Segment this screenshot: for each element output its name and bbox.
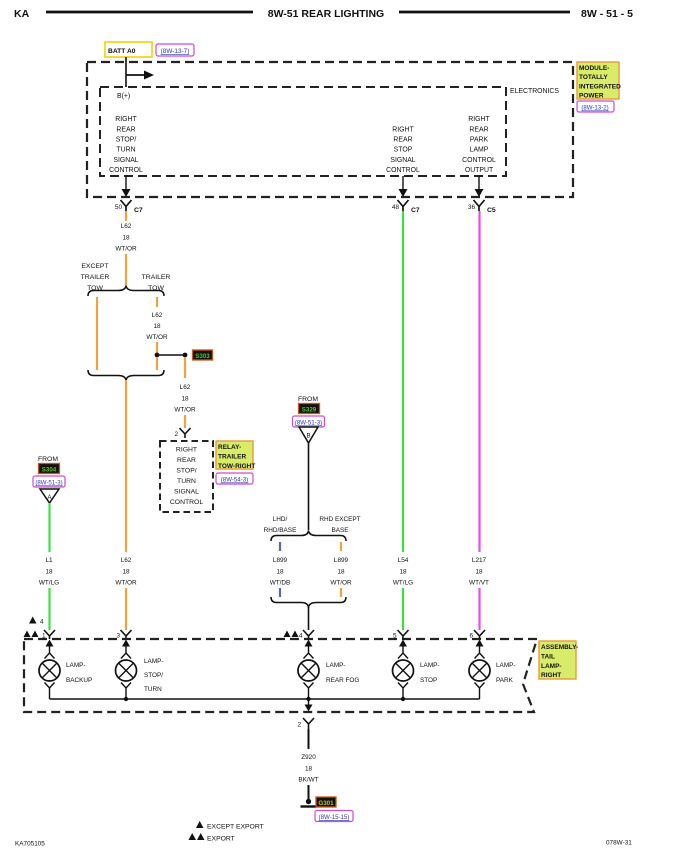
svg-text:BATT A0: BATT A0 [108,48,136,55]
ground bus wire [50,698,480,700]
svg-text:WT/OR: WT/OR [115,246,137,253]
svg-text:L54: L54 [398,557,409,564]
label LAMP-PARK [496,662,516,684]
svg-text:REAR FOG: REAR FOG [326,677,359,684]
svg-text:L1: L1 [45,557,53,564]
svg-text:8W-51 REAR LIGHTING: 8W-51 REAR LIGHTING [268,8,384,20]
junction node [401,697,405,701]
svg-text:INTEGRATED: INTEGRATED [579,83,621,90]
junction node [124,697,128,701]
svg-text:REAR: REAR [393,137,412,144]
svg-text:EXPORT: EXPORT [207,836,235,843]
svg-text:LAMP-: LAMP- [541,663,562,670]
connector C7 pin 50 [115,200,143,214]
wire L899 WT/DB branch [279,542,281,551]
svg-text:CONTROL: CONTROL [170,499,203,506]
label EXCEPT TRAILER TOW [81,263,110,292]
lamp E5 park [469,640,490,700]
svg-text:REAR: REAR [177,457,196,464]
svg-text:18: 18 [153,323,161,330]
svg-text:RIGHT: RIGHT [392,126,414,133]
wire L62 splice to merge brace [156,357,158,370]
connector lamp pin 6 [469,630,485,640]
svg-text:FROM: FROM [298,396,318,403]
svg-text:18: 18 [305,765,313,772]
svg-text:WT/OR: WT/OR [115,580,137,587]
hyperlink 8W-54-3 [216,473,253,484]
svg-text:50: 50 [115,204,123,211]
marker except-export pin 4 [29,617,44,626]
wire L62 except-trailer-tow branch [96,297,98,370]
brace merge L62 [88,370,164,381]
svg-text:RIGHT: RIGHT [468,116,490,123]
svg-text:S303: S303 [195,353,210,360]
wire label L1 18 WT/LG [39,557,59,587]
svg-text:RHD/BASE: RHD/BASE [264,527,297,534]
svg-text:FROM: FROM [38,456,58,463]
label LAMP-STOP [420,662,440,684]
wire label L899 18 WT/DB [270,557,291,587]
svg-text:MODULE-: MODULE- [579,65,609,72]
wire L62 merged [125,380,127,552]
module U1 electronics inner dashed box [100,87,506,176]
svg-text:4: 4 [299,633,303,640]
svg-text:LAMP-: LAMP- [420,662,440,669]
wire label L62 18 WT/OR [146,312,168,341]
svg-text:WT/LG: WT/LG [393,580,413,587]
arrow module output pin 50 [122,176,131,197]
hyperlink 8W-15-15 [315,811,353,822]
wire L54 [402,211,404,552]
wire L1 [48,588,50,630]
wire L217 [478,211,480,552]
svg-text:TURN: TURN [116,147,135,154]
svg-text:(8W-51-3): (8W-51-3) [35,480,62,487]
wire bus to pin 2 [305,699,313,712]
svg-text:RIGHT: RIGHT [115,116,137,123]
svg-text:S329: S329 [302,407,317,414]
svg-text:LAMP-: LAMP- [144,658,164,665]
footer sheet code 078W-31 [606,840,632,847]
svg-text:TRAILER: TRAILER [81,274,110,281]
svg-text:PARK: PARK [470,137,489,144]
connector lamp pin 3 [116,630,131,640]
wire L62 [184,415,186,428]
wire from connector B [308,443,310,530]
label FROM S329 [298,396,320,414]
wire L62 [156,342,158,354]
svg-text:TOTALLY: TOTALLY [579,74,608,81]
svg-text:C5: C5 [487,207,496,214]
svg-text:18: 18 [122,234,130,241]
svg-text:(8W-13-7): (8W-13-7) [161,48,190,55]
svg-text:SIGNAL: SIGNAL [390,157,415,164]
svg-text:BK/WT: BK/WT [298,777,318,784]
wire label L54 18 WT/LG [393,557,413,587]
header title 8W-51 REAR LIGHTING [268,8,384,20]
wire L54 [402,588,404,630]
svg-text:OUTPUT: OUTPUT [465,167,494,174]
svg-text:RHD EXCEPT: RHD EXCEPT [319,516,360,523]
connector C5 pin 36 [468,200,496,214]
wire L62 trailer-tow branch [156,297,158,307]
lamp E1 backup [39,640,60,700]
svg-text:LAMP-: LAMP- [326,662,346,669]
svg-text:WT/OR: WT/OR [330,580,352,587]
brace merge L899 [271,597,346,608]
svg-text:STOP/: STOP/ [116,137,137,144]
svg-text:(8W-13-2): (8W-13-2) [581,105,608,112]
arrow module output pin 48 [399,176,408,197]
splice S303 junction [155,353,188,358]
svg-text:2: 2 [174,431,178,438]
svg-text:WT/DB: WT/DB [270,580,291,587]
pin label B(+) [117,93,130,100]
svg-text:TOW-RIGHT: TOW-RIGHT [218,463,255,470]
splice label S303 [193,350,213,360]
wire L899 WT/DB [279,588,281,597]
wire label L217 18 WT/VT [469,557,489,587]
svg-text:4: 4 [40,619,44,626]
brace split L899 [271,531,346,542]
junction node [306,697,310,701]
footer sheet code KA705105 [15,841,45,848]
connector pin 2 relay [174,428,190,438]
connector lamp pin 5 [393,630,409,640]
connector C7 pin 48 [392,200,420,214]
svg-text:(8W-51-3): (8W-51-3) [295,420,322,427]
header page number 8W - 51 - 5 [581,8,633,20]
wire Z920 [308,785,310,800]
lamp E3 rear fog [298,640,319,700]
svg-text:18: 18 [399,568,407,575]
svg-text:TAIL: TAIL [541,653,555,660]
svg-text:CONTROL: CONTROL [386,167,420,174]
svg-text:L62: L62 [121,557,132,564]
pin text RIGHT REAR STOP SIGNAL CONTROL [386,126,420,174]
connector lamp pin 1 [44,630,55,639]
svg-text:L899: L899 [273,557,288,564]
svg-text:LAMP: LAMP [470,147,489,154]
svg-text:(8W-54-3): (8W-54-3) [221,477,248,484]
svg-text:REAR: REAR [116,126,135,133]
svg-text:A: A [47,495,51,501]
connector lamp pin 4 [303,630,314,639]
fuse feed label BATT A0 [105,42,152,57]
pin text RIGHT REAR PARK LAMP CONTROL OUTPUT [462,116,496,174]
legend marker except export [196,821,264,831]
relay K1 dashed box [160,441,213,512]
svg-text:S304: S304 [42,467,57,474]
assembly label ASSEMBLY-TAIL LAMP-RIGHT [539,641,578,679]
header rule left [46,11,253,14]
svg-text:3: 3 [116,633,120,640]
svg-text:REAR: REAR [469,126,488,133]
svg-text:TURN: TURN [177,478,196,485]
hyperlink 8W-51-3 [293,416,325,427]
wire label L62 18 WT/OR [115,557,137,587]
wire L899 merged [308,607,310,630]
relay pin text RIGHT REAR STOP/TURN SIGNAL CONTROL [170,447,203,507]
wire label Z920 18 BK/WT [298,754,318,784]
off-page connector B [299,427,318,443]
brace split L62 [88,286,164,297]
svg-text:KA705105: KA705105 [15,841,45,848]
svg-text:EXCEPT EXPORT: EXCEPT EXPORT [207,824,264,831]
svg-text:RELAY-: RELAY- [218,444,241,451]
svg-text:36: 36 [468,204,476,211]
svg-text:(8W-15-15): (8W-15-15) [319,814,350,821]
svg-text:ASSEMBLY-: ASSEMBLY- [541,644,578,651]
svg-text:RIGHT: RIGHT [176,447,197,454]
pin text RIGHT REAR STOP/TURN SIGNAL CONTROL [109,116,143,174]
svg-text:L899: L899 [334,557,349,564]
svg-text:TURN: TURN [144,686,162,693]
wire label L62 18 WT/OR [115,223,137,253]
svg-text:18: 18 [45,568,53,575]
svg-text:Z920: Z920 [301,754,316,761]
svg-text:STOP/: STOP/ [144,672,163,679]
svg-text:2: 2 [297,722,301,729]
header title KA [14,8,30,20]
wire L899 WT/OR branch [340,542,342,551]
svg-text:TRAILER: TRAILER [218,453,246,460]
label ELECTRONICS [510,88,559,95]
svg-text:STOP: STOP [420,677,437,684]
svg-text:STOP: STOP [394,147,413,154]
svg-text:RIGHT: RIGHT [541,672,561,679]
marker export pin 1 [24,631,47,640]
svg-text:POWER: POWER [579,93,604,100]
tail lamp assembly dashed box [24,639,537,712]
label LAMP-REAR FOG [326,662,359,684]
wire L62 top segment [125,211,127,221]
svg-text:G301: G301 [318,800,334,807]
hyperlink 8W-51-3 [33,476,65,487]
svg-text:CONTROL: CONTROL [462,157,496,164]
svg-text:LAMP-: LAMP- [496,662,516,669]
legend marker export [189,833,235,843]
label LAMP-BACKUP [66,662,92,684]
svg-text:WT/VT: WT/VT [469,580,489,587]
wire Z920 [308,729,310,749]
label FROM S304 [38,456,60,474]
lamp E2 stop/turn [116,640,137,700]
svg-text:EXCEPT: EXCEPT [81,263,108,270]
arrow module output pin 36 [475,176,484,197]
module label MODULE-TOTALLY INTEGRATED POWER [577,62,621,100]
marker export pin 4 [284,631,303,640]
svg-text:KA: KA [14,8,30,20]
feed arrow inside module [126,71,154,80]
wire label L62 18 WT/OR [174,384,196,414]
svg-text:CONTROL: CONTROL [109,167,143,174]
svg-text:C7: C7 [134,207,143,214]
svg-text:WT/OR: WT/OR [146,334,168,341]
lamp E4 stop [393,640,414,700]
svg-text:LAMP-: LAMP- [66,662,86,669]
ground label G301 [316,797,336,807]
svg-text:SIGNAL: SIGNAL [174,489,199,496]
svg-text:PARK: PARK [496,677,514,684]
label TRAILER TOW [142,274,171,292]
wire label L899 18 WT/OR [330,557,352,587]
wire L62 from S303 [184,357,186,378]
ground G301 symbol [301,799,317,807]
svg-text:L62: L62 [121,223,132,230]
svg-text:B(+): B(+) [117,93,130,100]
svg-text:C7: C7 [411,207,420,214]
header rule right [399,11,570,14]
hyperlink 8W-13-7 [156,44,194,56]
svg-text:L62: L62 [180,384,191,391]
relay label RELAY-TRAILER TOW-RIGHT [216,441,255,470]
off-page connector A [40,489,59,503]
svg-text:48: 48 [392,204,400,211]
svg-text:WT/LG: WT/LG [39,580,59,587]
svg-text:8W - 51 - 5: 8W - 51 - 5 [581,8,633,20]
svg-text:18: 18 [276,568,284,575]
svg-text:18: 18 [122,568,130,575]
svg-text:B: B [306,434,310,440]
svg-text:ELECTRONICS: ELECTRONICS [510,88,559,95]
svg-text:18: 18 [475,568,483,575]
svg-text:L217: L217 [472,557,487,564]
svg-text:SIGNAL: SIGNAL [113,157,138,164]
wire L899 WT/OR [340,588,342,597]
wire L62 [125,254,127,285]
svg-text:078W-31: 078W-31 [606,840,632,847]
svg-text:L62: L62 [152,312,163,319]
svg-text:BACKUP: BACKUP [66,677,92,684]
svg-text:WT/OR: WT/OR [174,407,196,414]
svg-text:STOP/: STOP/ [176,468,196,475]
connector pin 2 ground exit [297,718,314,729]
wire L62 [125,588,127,630]
svg-text:TRAILER: TRAILER [142,274,171,281]
label LHD/RHD/BASE [264,516,297,534]
wire L217 [478,588,480,630]
label LAMP-STOP/TURN [144,658,164,693]
svg-text:BASE: BASE [331,527,348,534]
hyperlink 8W-13-2 [577,101,614,112]
wire L1 [48,503,50,552]
svg-text:18: 18 [337,568,345,575]
label RHD EXCEPT BASE [319,516,360,534]
svg-text:18: 18 [181,395,189,402]
wire from BATT A0 into module [125,57,127,87]
module U1 TIPM outer dashed box [87,62,573,197]
svg-text:LHD/: LHD/ [273,516,288,523]
